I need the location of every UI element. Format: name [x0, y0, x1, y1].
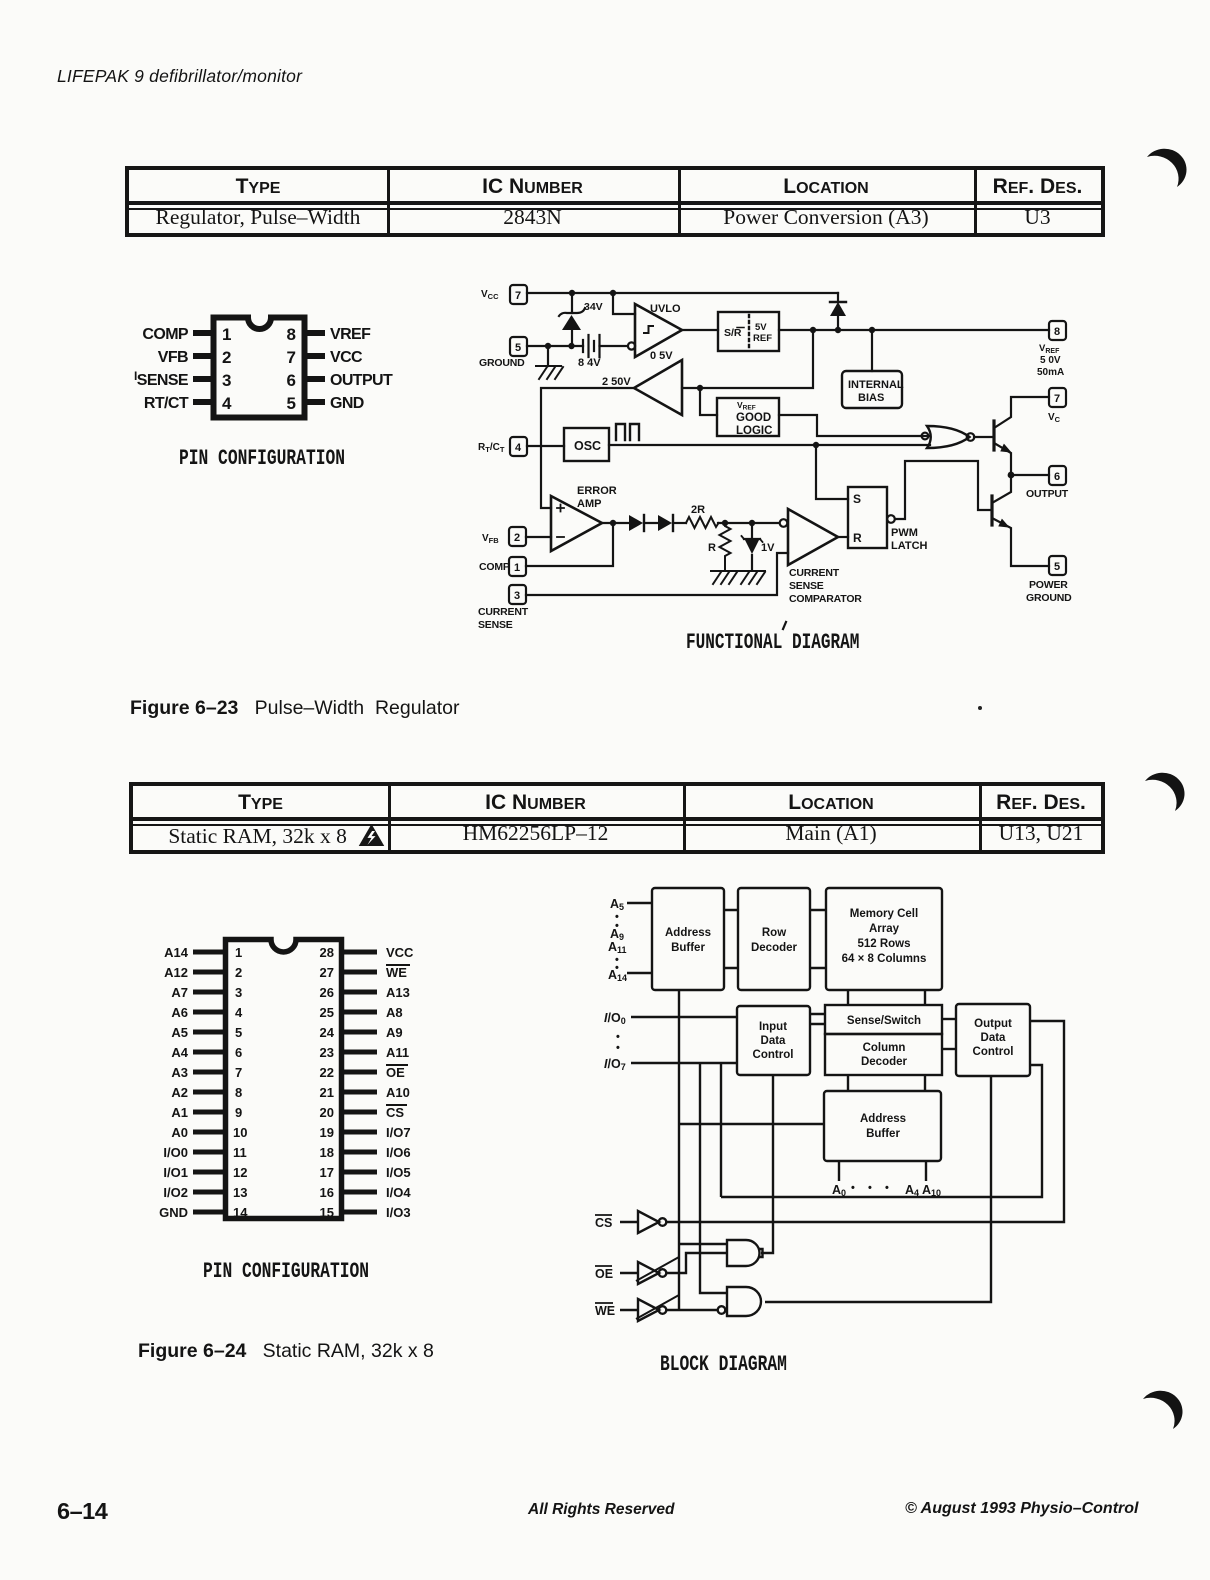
pin number 4	[222, 394, 232, 413]
svg-text:5: 5	[515, 342, 521, 354]
memory cell array box	[826, 888, 942, 990]
UVLO comparator triangle	[635, 304, 682, 357]
wire zener branch down	[571, 293, 573, 313]
wire battery to UVLO bubble	[600, 345, 629, 347]
svg-text:8: 8	[287, 325, 296, 344]
header IC NUMBER	[388, 791, 683, 815]
AND2 gate	[727, 1287, 761, 1316]
svg-text:•: •	[851, 1182, 855, 1194]
svg-text:UVLO: UVLO	[650, 303, 681, 315]
svg-text:ERROR: ERROR	[577, 485, 617, 497]
scan artifact crescent 1	[1130, 138, 1200, 198]
caption BLOCK DIAGRAM	[660, 1352, 787, 1377]
row decoder box	[738, 888, 810, 990]
svg-text:0 5V: 0 5V	[650, 350, 673, 362]
OE inverter input wire	[620, 1272, 638, 1274]
svg-text:GND: GND	[330, 395, 364, 412]
footer: All Rights Reserved	[528, 1501, 674, 1519]
svg-text:Input: Input	[759, 1021, 787, 1033]
NOR gate input bubble	[922, 433, 929, 440]
svg-text:I/O7: I/O7	[386, 1125, 411, 1140]
svg-text:VFB: VFB	[158, 349, 188, 366]
svg-text:Buffer: Buffer	[671, 942, 705, 954]
svg-text:21: 21	[320, 1085, 334, 1100]
pin 2 box (VFB)	[509, 527, 526, 546]
data 2843N	[387, 205, 678, 230]
Q2 collector	[992, 475, 1011, 503]
svg-text:A2: A2	[171, 1085, 188, 1100]
hysteresis symbol	[644, 326, 653, 333]
svg-text:8: 8	[235, 1085, 242, 1100]
svg-text:A10: A10	[386, 1085, 410, 1100]
header REF. DES.	[979, 791, 1103, 815]
error amp triangle	[551, 496, 602, 551]
svg-text:Buffer: Buffer	[866, 1128, 900, 1140]
svg-text:Output: Output	[974, 1018, 1012, 1030]
output data control box	[956, 1004, 1030, 1076]
transistor Q2 base bar	[990, 496, 993, 525]
svg-text:1V: 1V	[761, 542, 775, 554]
overline WE label	[595, 1302, 613, 1304]
svg-text:A0: A0	[171, 1125, 188, 1140]
ground symbol under R	[711, 571, 737, 584]
OSC output rail	[609, 444, 930, 446]
diode to 5V rail	[837, 293, 839, 330]
functional diagram of 2843N PWM regulator	[470, 280, 1110, 660]
pin number 6	[287, 371, 296, 390]
S/R 5V REF box	[718, 312, 779, 351]
wire to Vref good logic	[700, 388, 717, 415]
clock waveform symbol	[616, 424, 639, 440]
wire I/O0 to input data control	[631, 1016, 737, 1018]
resistor 2R	[686, 517, 719, 528]
svg-text:CURRENT: CURRENT	[789, 567, 840, 579]
svg-text:PIN CONFIGURATION: PIN CONFIGURATION	[179, 446, 345, 471]
svg-text:27: 27	[320, 965, 334, 980]
svg-text:18: 18	[320, 1145, 334, 1160]
junction dot node zener	[749, 520, 755, 526]
svg-text:5: 5	[287, 394, 296, 413]
wires row decoder to memory array	[810, 910, 826, 968]
AND2 output to output data control	[765, 1076, 991, 1302]
overline OE label	[595, 1265, 612, 1267]
svg-text:RT/CT: RT/CT	[478, 442, 505, 454]
figure caption 6-23	[130, 697, 460, 720]
svg-text:•: •	[885, 1182, 889, 1194]
svg-text:A0: A0	[832, 1183, 846, 1198]
svg-text:22: 22	[320, 1065, 334, 1080]
table 1: Pulse-Width Regulator IC	[125, 166, 1105, 237]
svg-text:1: 1	[222, 325, 231, 344]
IC package U3 outline with notch	[214, 318, 305, 418]
svg-text:RT/CT: RT/CT	[144, 395, 189, 412]
svg-text:Data: Data	[981, 1032, 1007, 1044]
junction dot error amp out	[610, 520, 616, 526]
stray stroke over WE inverter	[636, 1295, 679, 1319]
zener 1V	[744, 523, 760, 570]
column divider 2	[678, 170, 681, 233]
WE inverter input wire	[620, 1309, 638, 1311]
svg-text:13: 13	[233, 1185, 247, 1200]
footer: copyright	[905, 1500, 1138, 1518]
svg-text:WE: WE	[595, 1304, 615, 1318]
5V rail to pin 8	[779, 329, 1049, 331]
junction dot 5V rail b	[835, 327, 841, 333]
junction dot zener/battery node	[568, 343, 574, 349]
long feedback wire lower	[721, 1065, 1042, 1197]
svg-text:5V: 5V	[755, 322, 767, 333]
minus sign	[557, 536, 564, 538]
label ISENSE pin3	[134, 369, 189, 389]
OE output to AND1 lower input	[666, 1253, 727, 1273]
PWM latch box	[848, 487, 887, 548]
address buffer box (top)	[652, 888, 724, 990]
svg-text:5 0V: 5 0V	[1040, 355, 1061, 366]
svg-text:GOOD: GOOD	[736, 412, 771, 424]
pin 1 stub	[193, 330, 213, 336]
pin 1 box (COMP)	[509, 557, 526, 576]
OE inverter bubble	[659, 1269, 667, 1277]
svg-text:SENSE: SENSE	[789, 580, 824, 592]
wire 2.50V apex to error amp	[541, 388, 634, 508]
svg-text:I/O5: I/O5	[386, 1165, 411, 1180]
stray ink dot	[978, 706, 982, 710]
pin 3 stub	[193, 376, 213, 382]
svg-text:11: 11	[233, 1145, 247, 1160]
svg-text:A13: A13	[386, 985, 410, 1000]
svg-text:BLOCK DIAGRAM: BLOCK DIAGRAM	[660, 1352, 787, 1377]
diode D2 body	[658, 515, 672, 531]
pin number 3	[222, 371, 231, 390]
svg-text:Column: Column	[863, 1042, 906, 1054]
data Regulator, Pulse-Width	[129, 205, 387, 230]
data HM62256LP-12	[388, 821, 683, 846]
diode to 5V rail body	[830, 302, 846, 316]
svg-text:GROUND: GROUND	[479, 357, 525, 369]
INTERNAL BIAS box	[842, 371, 902, 408]
svg-text:5: 5	[235, 1025, 242, 1040]
svg-text:7: 7	[235, 1065, 242, 1080]
svg-text:I/O0: I/O0	[163, 1145, 188, 1160]
svg-text:WE: WE	[386, 965, 407, 980]
vertical from I/O7 line to long feedback	[720, 1063, 722, 1197]
header divider double line	[129, 201, 1101, 205]
pin stubs right 28-15	[342, 950, 377, 955]
pin 4 stub	[193, 399, 213, 405]
svg-text:Address: Address	[860, 1113, 906, 1125]
sense/switch box	[825, 1005, 942, 1034]
pin number 5	[287, 394, 296, 413]
2.50V reference amp triangle	[634, 360, 682, 415]
svg-text:I/O7: I/O7	[604, 1057, 626, 1072]
svg-text:25: 25	[320, 1005, 334, 1020]
svg-text:OUTPUT: OUTPUT	[330, 372, 393, 389]
svg-text:A1: A1	[171, 1105, 188, 1120]
pin configuration diagram, 28-pin DIP (HM62256LP-12)	[120, 900, 480, 1300]
svg-text:Sense/Switch: Sense/Switch	[847, 1015, 921, 1027]
label COMP pin1	[142, 326, 189, 343]
svg-text:A4: A4	[905, 1183, 919, 1198]
dotted divider in S/R box	[748, 315, 750, 348]
svg-text:A3: A3	[171, 1065, 188, 1080]
pin 5 stub	[305, 399, 325, 405]
svg-text:8: 8	[1054, 326, 1060, 338]
svg-text:A14: A14	[164, 945, 189, 960]
svg-text:VREF: VREF	[1039, 343, 1060, 355]
junction dot 5V rail c	[869, 327, 875, 333]
wire error amp output	[602, 522, 629, 524]
figure caption 6-24	[138, 1340, 434, 1363]
svg-text:GND: GND	[159, 1205, 188, 1220]
vertical bus from top address buffer	[678, 990, 680, 1310]
junction dot 5V rail a	[810, 327, 816, 333]
ground symbol under zener 1V	[739, 571, 765, 584]
table 2: Static RAM IC	[129, 782, 1105, 854]
svg-text:19: 19	[320, 1125, 334, 1140]
label RT/CT pin4	[144, 395, 189, 412]
OE inverter triangle	[638, 1262, 659, 1284]
svg-text:8 4V: 8 4V	[578, 357, 601, 369]
wire I/O7 to input data control	[631, 1062, 737, 1064]
pin 5 box (power ground)	[1049, 556, 1066, 575]
svg-text:20: 20	[320, 1105, 334, 1120]
IC package U13/U21 outline with notch	[226, 940, 342, 1219]
data U3	[974, 205, 1101, 230]
CS inverter bubble	[659, 1218, 667, 1226]
svg-text:A4: A4	[171, 1045, 188, 1060]
svg-text:7: 7	[287, 348, 296, 367]
svg-text:A5: A5	[171, 1025, 188, 1040]
svg-text:Address: Address	[665, 927, 711, 939]
svg-text:OSC: OSC	[574, 439, 601, 453]
wire latch out to lower driver	[895, 461, 992, 519]
svg-text:26: 26	[320, 985, 334, 1000]
wire pin2 to error amp inverting	[526, 536, 551, 538]
Vref GOOD LOGIC box	[717, 398, 779, 436]
svg-text:PWM: PWM	[891, 527, 918, 539]
wire A14 to address buffer	[627, 972, 652, 974]
internal bias connection	[871, 330, 873, 371]
svg-text:COMP: COMP	[479, 561, 510, 573]
data U13, U21	[979, 821, 1103, 846]
WE inverter bubble	[659, 1306, 667, 1314]
NOR output bubble	[967, 433, 975, 441]
overline OE	[386, 1064, 408, 1066]
diode D1 body	[629, 515, 643, 531]
Q1 emitter with arrow	[994, 443, 1011, 475]
pin 6 stub	[305, 376, 325, 382]
svg-text:Control: Control	[753, 1049, 794, 1061]
svg-text:4: 4	[235, 1005, 243, 1020]
address buffer box (lower)	[824, 1091, 941, 1161]
svg-text:LATCH: LATCH	[891, 540, 928, 552]
svg-text:Decoder: Decoder	[861, 1056, 908, 1068]
NOR gate	[927, 426, 970, 448]
wire 2.50V output rail	[682, 330, 813, 388]
svg-text:3: 3	[222, 371, 231, 390]
junction dot output node	[1008, 472, 1015, 479]
header LOCATION	[678, 175, 974, 199]
svg-text:16: 16	[320, 1185, 334, 1200]
current sense comparator triangle	[788, 509, 838, 565]
svg-text:5: 5	[1054, 561, 1060, 573]
overline on R of S/R	[737, 327, 744, 329]
column divider 1	[387, 170, 390, 233]
svg-text:REF: REF	[753, 333, 772, 344]
pin number 1	[222, 325, 231, 344]
svg-text:3: 3	[514, 590, 520, 602]
data Static RAM, 32k x 8 with ESD symbol	[149, 821, 404, 849]
junction dot top rail 2	[610, 290, 616, 296]
svg-text:LOGIC: LOGIC	[736, 425, 772, 437]
wire NOR out to top driver base	[974, 436, 994, 438]
horizontal link to lower address buffer	[679, 1123, 824, 1125]
svg-text:OE: OE	[595, 1267, 613, 1281]
svg-text:6: 6	[235, 1045, 242, 1060]
svg-text:2R: 2R	[691, 504, 705, 516]
wire comparator out to latch R	[838, 536, 848, 538]
Q2 emitter with arrow	[992, 518, 1049, 566]
svg-text:OUTPUT: OUTPUT	[1026, 488, 1069, 500]
svg-text:VCC: VCC	[386, 945, 414, 960]
column divider 3	[974, 170, 977, 233]
svg-text:VREF: VREF	[737, 400, 756, 412]
battery 8.4V	[583, 335, 600, 357]
svg-text:4: 4	[515, 442, 522, 454]
wires memory array to sense/switch	[848, 990, 925, 1005]
column divider 3	[979, 786, 982, 850]
CS long feedback wire	[667, 1021, 1064, 1222]
svg-text:VREF: VREF	[330, 326, 371, 343]
svg-text:Decoder: Decoder	[751, 942, 798, 954]
header IC NUMBER	[387, 175, 678, 199]
diode D2	[672, 515, 674, 531]
pin stubs left 1-14	[193, 950, 225, 955]
pin 6 box (output)	[1049, 466, 1066, 485]
wire COMP pin1	[526, 523, 613, 566]
svg-text:4: 4	[222, 394, 232, 413]
svg-text:A6: A6	[171, 1005, 188, 1020]
svg-text:A9: A9	[386, 1025, 403, 1040]
svg-text:I/O4: I/O4	[386, 1185, 411, 1200]
OSC box	[564, 428, 609, 461]
WE output to AND2 bubble input	[666, 1309, 717, 1311]
label OUTPUT pin6	[330, 372, 393, 389]
scan artifact crescent 3	[1126, 1382, 1196, 1442]
svg-text:CURRENT: CURRENT	[478, 606, 529, 618]
svg-text:COMPARATOR: COMPARATOR	[789, 593, 862, 605]
svg-text:Row: Row	[762, 927, 786, 939]
UVLO comparator bubble	[628, 342, 635, 349]
svg-text:A10: A10	[922, 1183, 941, 1198]
caption FUNCTIONAL DIAGRAM	[686, 622, 859, 655]
vertical from I/O7 line to AND2	[700, 1063, 727, 1293]
svg-text:2: 2	[235, 965, 242, 980]
ground stub	[547, 346, 549, 366]
svg-text:Array: Array	[869, 923, 900, 935]
svg-text:50mA: 50mA	[1037, 367, 1064, 378]
svg-text:7: 7	[1054, 393, 1060, 405]
Q1 collector	[994, 397, 1049, 428]
svg-text:•: •	[868, 1182, 872, 1194]
wire sense/switch to output data control	[942, 1018, 956, 1020]
pin 5 box (ground)	[510, 337, 527, 356]
AND1 output nub	[759, 1249, 763, 1257]
scan artifact crescent 2	[1128, 762, 1198, 822]
svg-text:1: 1	[235, 945, 242, 960]
stray stroke over OE inverter	[636, 1257, 679, 1281]
svg-text:6: 6	[1054, 471, 1060, 483]
diode D1	[643, 515, 645, 531]
column decoder box	[825, 1034, 942, 1075]
column divider 1	[388, 786, 391, 850]
page number 6-14	[57, 1498, 107, 1525]
zener diode 34V	[559, 308, 585, 346]
pin 2 stub	[193, 353, 213, 359]
svg-text:CS: CS	[386, 1105, 404, 1120]
resistor R vertical	[720, 523, 731, 570]
CS inverter input wire	[620, 1221, 638, 1223]
svg-text:A11: A11	[608, 940, 627, 955]
svg-text:A5: A5	[610, 897, 624, 912]
svg-text:VFB: VFB	[482, 533, 499, 545]
svg-text:34V: 34V	[584, 301, 603, 313]
AND2 input bubble	[718, 1306, 726, 1314]
wire latch S input	[816, 445, 848, 499]
latch output bubble	[887, 515, 895, 523]
pin number 2	[222, 348, 231, 367]
pin 4 box (RT/CT)	[510, 437, 527, 456]
svg-text:INTERNAL: INTERNAL	[848, 379, 904, 391]
svg-text:10: 10	[233, 1125, 247, 1140]
svg-text:17: 17	[320, 1165, 334, 1180]
svg-text:VC: VC	[1048, 412, 1061, 424]
svg-text:•: •	[616, 1042, 620, 1054]
input data control box	[737, 1006, 810, 1075]
header REF. DES.	[974, 175, 1101, 199]
svg-text:Control: Control	[973, 1046, 1014, 1058]
pin 7 box (Vcc)	[510, 285, 527, 304]
svg-text:PIN CONFIGURATION: PIN CONFIGURATION	[203, 1259, 369, 1284]
pin 3 box (current sense)	[509, 585, 526, 604]
wire good logic to NOR input	[779, 415, 929, 436]
running header: LIFEPAK 9 defibrillator/monitor	[57, 66, 302, 87]
AND1 gate	[727, 1240, 760, 1266]
wire node to comparator	[718, 522, 779, 524]
svg-text:FUNCTIONAL DIAGRAM: FUNCTIONAL DIAGRAM	[686, 630, 859, 655]
svg-text:7: 7	[515, 290, 521, 302]
svg-text:I/O1: I/O1	[163, 1165, 188, 1180]
label GND pin5	[330, 395, 364, 412]
svg-text:64 × 8 Columns: 64 × 8 Columns	[842, 953, 927, 965]
svg-text:A7: A7	[171, 985, 188, 1000]
pin 8 box (Vref out)	[1049, 321, 1066, 340]
comparator input bubble	[780, 519, 788, 527]
svg-text:S/R: S/R	[724, 327, 742, 339]
wire Vcc top rail	[527, 292, 838, 294]
wire UVLO out to S/R box	[682, 329, 718, 331]
svg-text:S: S	[853, 492, 861, 506]
svg-text:SENSE: SENSE	[478, 619, 513, 631]
Q2 emitter arrowhead	[999, 520, 1009, 528]
svg-text:14: 14	[233, 1205, 248, 1220]
svg-text:3: 3	[235, 985, 242, 1000]
wires input data control to sense/switch	[810, 1014, 825, 1024]
svg-text:2 50V: 2 50V	[602, 376, 631, 388]
svg-text:I/O2: I/O2	[163, 1185, 188, 1200]
wire UVLO top input	[613, 293, 635, 314]
pin number 7	[287, 348, 296, 367]
